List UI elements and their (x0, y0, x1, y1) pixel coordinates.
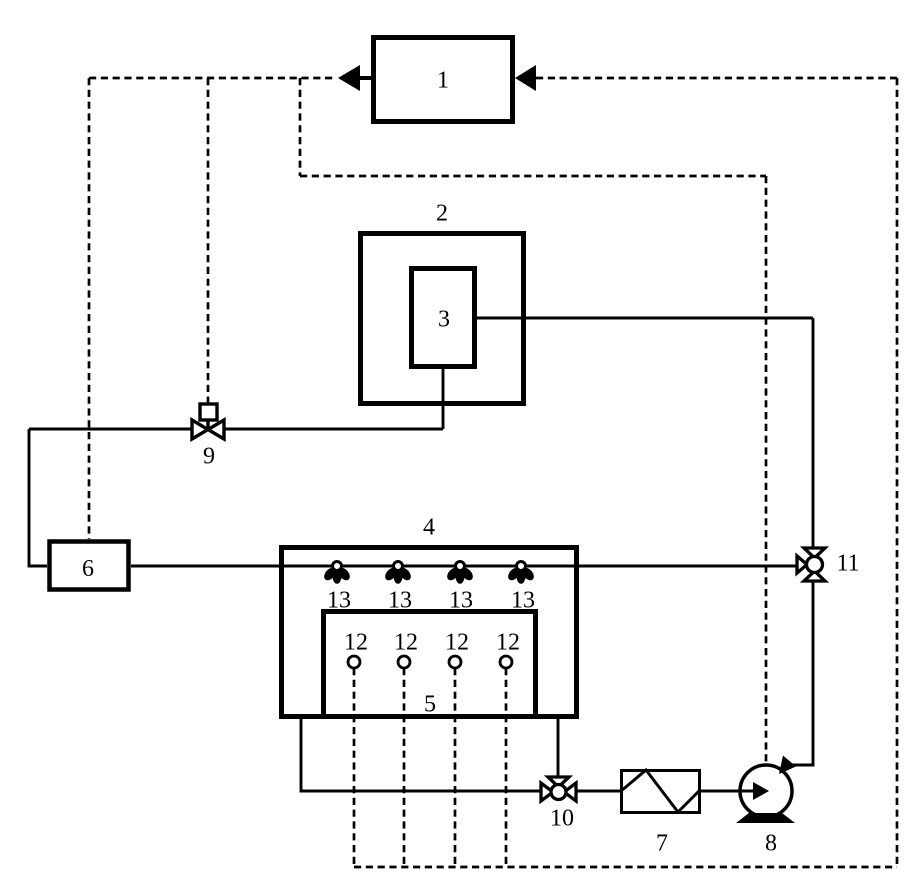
wire dashed: horizontal run to pump drop (300, 175, 766, 178)
svg-text:7: 7 (656, 831, 668, 857)
spray nozzle 13c (445, 562, 475, 584)
wire dashed: sensor 12d drop (505, 668, 508, 867)
box 6 (50, 542, 129, 590)
svg-text:11: 11 (836, 551, 859, 577)
wire: left vertical down to box 6 (29, 429, 47, 566)
wire dashed: controller output bus top-left horizontal (89, 77, 334, 80)
wire dashed: right vertical feedback riser (896, 78, 899, 867)
wire: horizontal through valve 9 (29, 428, 443, 431)
wire dashed: sensor 12b drop (403, 668, 406, 867)
wire: valve 11 bottom down to pump outlet (791, 581, 813, 765)
svg-text:2: 2 (436, 201, 448, 227)
svg-text:12: 12 (445, 630, 469, 656)
wire dashed: bottom feedback bus (354, 866, 897, 869)
svg-text:12: 12 (496, 630, 520, 656)
spray nozzle 13a (322, 562, 352, 584)
pump 8 (740, 765, 792, 817)
svg-text:1: 1 (437, 68, 449, 94)
spray nozzle 13d (506, 562, 536, 584)
svg-text:13: 13 (388, 588, 412, 614)
wire dashed: vertical drop to valve 9 actuator (207, 78, 210, 403)
svg-text:6: 6 (82, 556, 94, 582)
svg-text:4: 4 (423, 515, 435, 541)
wire: box 3 right outlet to riser (477, 317, 813, 320)
wire dashed: sensor 12c drop (454, 668, 457, 867)
svg-text:12: 12 (394, 630, 418, 656)
svg-text:13: 13 (511, 588, 535, 614)
valve 10 (541, 777, 576, 801)
wire: box 4 bottom-left drain (301, 719, 544, 791)
svg-text:8: 8 (765, 831, 777, 857)
heat exchanger 7 (622, 771, 700, 813)
spray nozzle 13b (383, 562, 413, 584)
wire: valve 10 to heat exchanger (573, 790, 620, 793)
valve 11 (797, 548, 825, 581)
valve 9 (192, 404, 224, 439)
sensor 12b (398, 656, 410, 668)
svg-text:13: 13 (449, 588, 473, 614)
wire dashed: vertical jog toward pump (299, 78, 302, 176)
inner tank box 5 (324, 612, 536, 717)
svg-text:12: 12 (344, 630, 368, 656)
svg-text:5: 5 (424, 692, 436, 718)
wire: riser down to valve 11 top (812, 318, 815, 548)
svg-text:13: 13 (327, 588, 351, 614)
svg-text:9: 9 (203, 444, 215, 470)
sensor 12a (348, 656, 360, 668)
tank box 4 (282, 548, 577, 717)
controller box 1 (374, 38, 513, 122)
wire dashed: vertical drop to box 6 (88, 78, 91, 539)
svg-text:10: 10 (550, 806, 574, 832)
sensor 12c (449, 656, 461, 668)
wire dashed: vertical drop to pump 8 (765, 176, 768, 763)
wire dashed: sensor 12a drop (353, 668, 356, 867)
wire: box 3 bottom outlet (442, 369, 445, 429)
svg-text:3: 3 (438, 307, 450, 333)
arrow into box 1 (right) (515, 65, 536, 91)
arrow out of box 1 (left) (358, 76, 372, 80)
wire dashed: sensor feedback top-right horizontal into box 1 (536, 77, 897, 80)
wire: box 4 bottom to valve 10 stem (557, 719, 560, 778)
wire: heat exchanger to pump inlet (701, 790, 755, 793)
inner unit box 3 (412, 269, 475, 367)
sensor 12d (500, 656, 512, 668)
chamber box 2 (361, 234, 524, 404)
wire: box 6 to spray header and valve 11 (131, 565, 797, 568)
